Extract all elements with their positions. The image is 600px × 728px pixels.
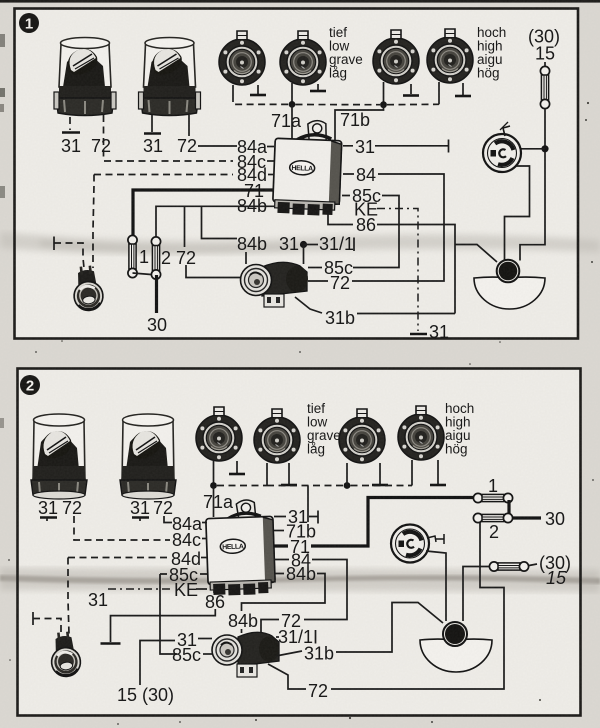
wire branch to button (diagonal) [455, 245, 497, 263]
wire 15 to fuse [544, 62, 546, 67]
horn H8 lead wire [411, 460, 413, 486]
horn H6 (tief) [254, 409, 300, 463]
wire node to 31/1 [304, 244, 319, 246]
beacon B3 wire 72 dashed to 84c [74, 516, 170, 540]
wire 86 to ground [111, 609, 216, 642]
wire 84a to relay [267, 146, 274, 148]
panel 2 border frame [18, 369, 581, 716]
beacon B2 ground bar [144, 132, 161, 134]
horn H5 lead wire [213, 461, 215, 485]
horn H1 (tief) [219, 31, 265, 85]
wire 71b to relay [335, 105, 384, 143]
node on right feed wire [541, 145, 548, 152]
wire 85c to flasher [342, 196, 399, 268]
horn H6 ground [288, 463, 290, 484]
wire KE dash-dot [108, 588, 172, 590]
beacon lamp B2 [139, 38, 201, 116]
wire dashed node71a to node71b [296, 104, 381, 106]
wire 84d dashed drop to ignition switch IG2 [68, 558, 69, 635]
wire 30 thick [155, 275, 158, 313]
relay K2 (HELLA) [205, 499, 275, 596]
wire 84b label to flasher [241, 629, 243, 633]
wire 71a to relay (panel2) [213, 486, 215, 518]
beacon B2 lead 72 [188, 115, 190, 136]
relay K1 mounting tab [307, 120, 327, 141]
horn H7 lead wire [346, 463, 348, 486]
wire 84d dashed [94, 174, 233, 176]
relay K1 (HELLA) [272, 119, 342, 216]
fuse 1 horizontal (panel2) [473, 493, 512, 502]
beacon B1 ground bar [62, 131, 80, 133]
fuse 2 horizontal (panel2) [473, 513, 512, 522]
wire 72 branch down [184, 206, 186, 247]
wire 72 flasher stub [308, 280, 328, 282]
node 31 [300, 241, 307, 248]
top page edge line [0, 0, 600, 3]
horn H1 lead wire [232, 85, 234, 95]
beacon lamp B3 [31, 414, 87, 499]
wire 72 to 84a [198, 145, 237, 147]
wire fuse3 leader to (30) [529, 564, 537, 566]
horn H8 (hoch) [398, 406, 444, 460]
horn H4 ground [462, 83, 464, 95]
wire KE dash-dot to ground [377, 209, 418, 332]
node 71a (panel2) [210, 482, 217, 489]
panel 1 border frame [15, 9, 579, 339]
wire 84a to relay [202, 522, 207, 524]
node (right horn pair, panel2) [344, 482, 351, 489]
spiral horn S2 (fanfare) [391, 525, 429, 563]
wire 72 bottom from flasher [268, 664, 306, 689]
flasher unit FL2 [212, 632, 279, 677]
relay K1 connector pins [275, 200, 335, 210]
steering half-moon pad [474, 277, 545, 309]
spiral horn S2 tab [427, 536, 436, 542]
wire 84d dashed drop to ignition switch [93, 175, 94, 269]
wire fuse bottoms joined [133, 273, 152, 275]
wire 71b to relay [274, 530, 284, 532]
relay K1 body [273, 138, 342, 204]
horn H3 ground [410, 84, 412, 94]
wire 84d dashed [68, 557, 168, 559]
relay K2 HELLA logo [220, 539, 245, 554]
wire spiral horn S1 bottom to button path [505, 166, 530, 260]
wire fuse down right side [520, 109, 545, 261]
horn H4 (hoch) [427, 29, 473, 83]
dashed bracket to ignition switch IG2 [32, 612, 34, 625]
horn H3 lead wire [383, 82, 385, 105]
horn button SB1 [497, 260, 520, 283]
wire 84c dashed [104, 160, 233, 162]
wire dashed node71b to horn H4 [387, 103, 439, 105]
wire 30 thick (panel2) [512, 516, 541, 519]
left margin marks [0, 34, 5, 47]
horn H3 (hoch) [373, 30, 419, 84]
horn H8 ground [437, 460, 439, 484]
horn H2 ground [317, 84, 319, 90]
wire 84b branch to label 84b lower [202, 206, 238, 238]
wire 31b to button [336, 603, 443, 653]
spiral horn S1 tab [503, 126, 510, 136]
panel 1 number badge [19, 13, 39, 33]
fuse (15 feed) vertical [540, 66, 549, 108]
wire dashed node to horn H8 [351, 485, 413, 487]
wire 31b to button branch [357, 313, 455, 315]
panel 2 number badge [20, 375, 40, 395]
wire node to flasher [303, 245, 305, 265]
horn H5 (tief) [196, 407, 242, 461]
spiral horn S1 [483, 134, 521, 172]
wire 84b to fuse 2 [156, 206, 274, 238]
ground (86 / 31) [101, 642, 121, 645]
horn H2 (tief) [280, 31, 326, 85]
node 71a [289, 101, 296, 108]
scan fold smudge band panel 1 [0, 232, 600, 254]
fuse 2 [151, 237, 160, 279]
horn H2 lead wire [291, 83, 293, 104]
wire 85c flasher stub [308, 267, 322, 269]
node 71b [380, 101, 387, 108]
relay K2 mounting tab [236, 500, 256, 519]
wire spiral horn S2 to button [426, 551, 446, 621]
beacon lamp B4 [120, 414, 176, 499]
fuse 3 horizontal ((30)/15 panel2) [489, 562, 528, 571]
wire 84 to 72/flasher [274, 560, 347, 620]
horn H5 ground [236, 461, 238, 473]
dashed bracket to ignition switch [53, 237, 55, 251]
wire 31 stub (panel2) [274, 516, 318, 518]
wire 72 to flasher top [261, 620, 279, 633]
ignition switch IG2 [48, 631, 81, 678]
wire 84 to flasher 72 [343, 174, 444, 281]
ground (KE) [410, 333, 427, 336]
wire 31 flasher stub [198, 638, 212, 640]
beacon B4 ground bar [132, 516, 149, 518]
wire node to spiral horn [521, 148, 545, 150]
horn H7 ground [379, 463, 381, 484]
beacon B3 ground bar [40, 516, 57, 518]
fuse 1 [128, 235, 137, 277]
horn H6 lead wire [266, 463, 268, 486]
horn H4 lead wire [438, 82, 440, 104]
relay K2 body [206, 516, 275, 584]
wire 85c flasher stub [203, 653, 212, 655]
wire 31 stub [343, 145, 449, 147]
steering half-moon pad (panel2) [420, 639, 492, 672]
flasher unit FL1 [241, 262, 309, 307]
beacon B1 lead 72 (dashed) [103, 115, 105, 161]
beacon B2 lead 31 [151, 115, 153, 132]
wire 31 to 15(30) [140, 641, 175, 686]
wire 86 to horn button [328, 212, 455, 314]
wire 86 leader [213, 590, 215, 593]
wire 84c dashed stub [202, 538, 207, 540]
beacon B4 wire 72 to 84a [164, 516, 172, 523]
wire 71 thick to fuse 1 [133, 190, 274, 236]
horn H7 (hoch) [339, 409, 385, 463]
wire 71a to relay [291, 104, 293, 140]
wire 85c row to flasher drop [160, 573, 207, 575]
wire 71b drop [307, 486, 309, 523]
wire 31b from flasher (panel2) [276, 651, 302, 656]
wire 84b path to flasher [242, 574, 326, 612]
beacon lamp B1 [54, 38, 116, 116]
scan fold crease panel 2 [0, 575, 600, 584]
beacon B1 lead 31 (dashed) [69, 117, 71, 130]
horn H1 ground [257, 85, 259, 94]
wire 31b from flasher [295, 297, 322, 313]
wire dashed across to node 2 [267, 485, 344, 487]
wire fuse3 to button [463, 567, 489, 622]
wire fuse1 to fuse2 thick [507, 500, 510, 516]
horn button SB2 [443, 622, 467, 646]
wire 72 bottom to fuse 2 [331, 522, 504, 689]
wire 71 thick to fuse 1 (panel2) [274, 498, 474, 547]
wire 31/1 stub [276, 636, 279, 638]
relay K2 connector pins [210, 580, 271, 590]
wire 72 to flasher [186, 265, 243, 278]
wire dashed node to horn H6 [217, 485, 267, 487]
ignition switch IG1 [71, 265, 104, 312]
wire 84b label to flasher [245, 252, 247, 264]
relay K1 HELLA logo [289, 160, 315, 175]
